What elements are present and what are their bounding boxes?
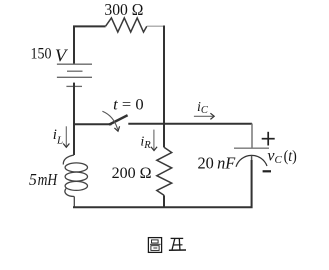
switch arc with arrow [102, 111, 117, 129]
wire capacitor bottom lead [251, 156, 253, 207]
resistor 200Ω zigzag [157, 147, 172, 195]
wire middle rail [163, 26, 165, 148]
svg-text:t = 0: t = 0 [113, 97, 144, 114]
wire resistor 300Ω right lead [147, 25, 164, 27]
inductor 5mH coil [63, 155, 87, 207]
svg-text:20 nF: 20 nF [198, 153, 237, 172]
svg-text:vC: vC [267, 147, 282, 166]
svg-text:V: V [55, 46, 69, 66]
svg-text:iL: iL [53, 127, 63, 147]
wire top-left and left rail top [74, 26, 106, 64]
switch t=0 blade [109, 115, 128, 124]
wire bottom [73, 160, 252, 207]
capacitor 20nF top plate [234, 147, 269, 149]
plus sign [262, 138, 275, 140]
arrow iC [194, 115, 213, 117]
capacitor 20nF curved plate [236, 155, 267, 166]
svg-text:(t): (t) [284, 148, 297, 165]
wire switch-level right segment [128, 123, 252, 125]
arrow iL [65, 126, 67, 146]
wire capacitor top lead [251, 124, 253, 149]
wire left rail below battery [73, 83, 75, 155]
wire switch-level left segment [73, 123, 112, 125]
svg-text:5: 5 [29, 170, 37, 189]
battery 150V plates [57, 64, 92, 86]
svg-text:150: 150 [31, 46, 52, 63]
minus sign [263, 170, 271, 172]
arrow iR [153, 130, 155, 150]
svg-text:iC: iC [197, 100, 209, 116]
svg-text:300 Ω: 300 Ω [104, 0, 143, 19]
caption 圖五 [148, 238, 186, 253]
svg-text:200 Ω: 200 Ω [112, 163, 152, 182]
resistor 300Ω zigzag [106, 18, 147, 32]
svg-text:iR: iR [140, 135, 151, 151]
svg-text:mH: mH [38, 170, 59, 189]
wire 200Ω bottom lead [163, 195, 165, 207]
